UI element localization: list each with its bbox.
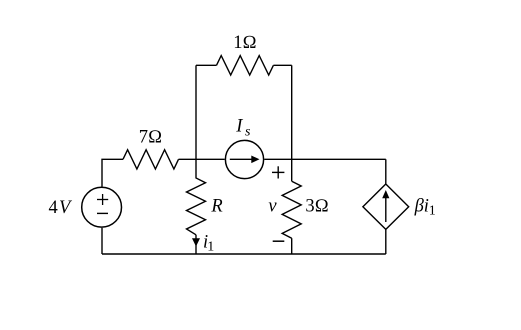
resistor R1 1ohm (horizontal zigzag) — [217, 56, 274, 75]
svg-text:v: v — [268, 197, 277, 217]
label 1ohm — [233, 33, 256, 53]
dependent current source beta*i1 (diamond with up arrow) — [363, 184, 409, 229]
svg-text:s: s — [245, 125, 251, 140]
resistor R (vertical zigzag) — [187, 159, 206, 235]
svg-text:1: 1 — [429, 203, 436, 218]
resistor R2 7ohm (horizontal zigzag) — [123, 150, 179, 169]
label i1 — [203, 232, 214, 254]
label Is — [235, 117, 251, 140]
wire: 3ohm to bottom — [291, 238, 293, 254]
label 7ohm — [139, 128, 162, 148]
wire: R to bottom with current arrow i1 — [195, 235, 197, 254]
svg-text:1: 1 — [207, 240, 214, 255]
wire: top loop right horizontal — [273, 64, 291, 66]
label beta i1 — [414, 196, 436, 218]
svg-text:3Ω: 3Ω — [305, 196, 328, 216]
wire: left vertical of 1ohm loop — [195, 65, 197, 159]
wire: top loop left horizontal — [196, 64, 217, 66]
label v plus polarity — [272, 166, 284, 178]
voltage source V1 4V (circle with plus minus) — [82, 187, 122, 227]
label 3ohm — [305, 196, 328, 216]
wire: Is to right branch — [264, 158, 386, 160]
label 4V — [49, 198, 73, 218]
svg-text:I: I — [235, 117, 243, 137]
svg-text:R: R — [210, 196, 222, 216]
current source Is (circle with right arrow) — [225, 140, 263, 178]
wire: 4V bottom to bottom wire — [101, 228, 103, 254]
current arrow i1 — [192, 238, 200, 246]
wire: right branch top (mid wire to diamond) — [385, 159, 387, 184]
svg-text:4V: 4V — [49, 198, 73, 218]
resistor 3ohm (vertical zigzag) — [282, 181, 301, 238]
svg-text:βi: βi — [414, 196, 429, 216]
svg-text:1Ω: 1Ω — [233, 33, 256, 53]
wire: middle horizontal left segment (4V top node to 7ohm) — [102, 159, 123, 186]
wire: diamond bottom to bottom wire — [385, 229, 387, 254]
label v minus polarity — [273, 240, 285, 242]
wire: bottom horizontal — [102, 253, 386, 255]
svg-text:7Ω: 7Ω — [139, 128, 162, 148]
wire: right vertical of 1ohm loop down to 3ohm — [291, 65, 293, 181]
label R — [210, 196, 222, 216]
label v — [268, 197, 277, 217]
wire: 7ohm to current source Is — [179, 158, 225, 160]
